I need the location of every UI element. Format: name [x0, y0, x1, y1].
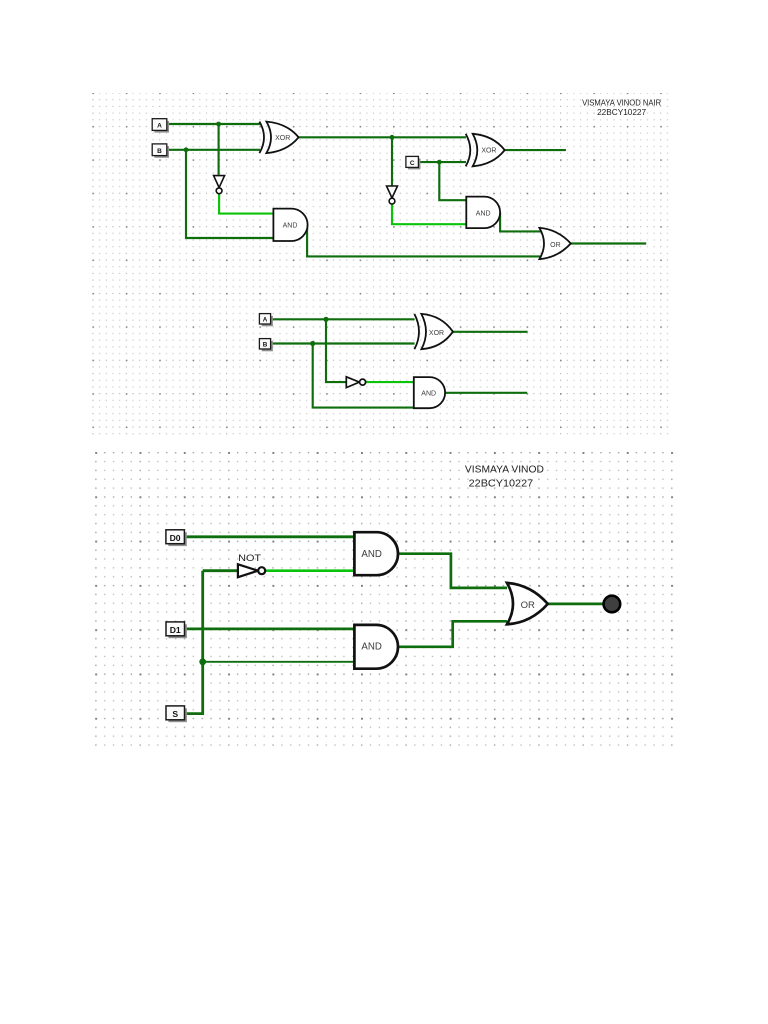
not gate (NOT2, pointing down) [387, 186, 398, 204]
wire B drop to AND3 [313, 344, 414, 408]
or gate (OR2) [507, 583, 548, 624]
wire AND1m output to OR2 [398, 554, 507, 588]
wire carry output of OR1 [571, 242, 646, 244]
wire D1 to AND2m [185, 628, 355, 631]
svg-text:OR: OR [550, 242, 561, 249]
svg-text:B: B [263, 342, 268, 349]
svg-text:D1: D1 [170, 625, 181, 635]
and gate (AND1) [273, 209, 307, 241]
svg-text:S: S [172, 709, 178, 719]
node XOR1-out junction [390, 135, 395, 140]
wire drop to NOT2 [391, 137, 393, 186]
input pin A (half adder) [259, 314, 273, 327]
xor gate (XOR3) [414, 314, 453, 349]
input pin A [152, 119, 169, 133]
wire riser to NOT4 [203, 569, 238, 572]
wire B drop to AND1 [186, 150, 273, 238]
wire S branch to AND2m [203, 661, 355, 663]
wire B to XOR3 [271, 342, 415, 344]
input pin D1 [166, 622, 187, 638]
canvas grid area 2 (2:1 mux) [88, 451, 675, 751]
wire AND2 output to OR1 [500, 212, 540, 231]
node B junction [184, 147, 189, 152]
wire A drop to NOT1 [218, 124, 220, 175]
svg-text:22BCY10227: 22BCY10227 [469, 479, 534, 490]
or gate (OR1) [539, 228, 570, 259]
wire C to XOR2 [418, 161, 466, 163]
svg-text:A: A [263, 317, 268, 324]
wire sum output of XOR2 [505, 149, 566, 151]
wire XOR3 sum output [453, 331, 528, 333]
wire D0 to AND1m [184, 535, 354, 538]
svg-text:D0: D0 [170, 533, 181, 543]
node C junction [437, 160, 442, 165]
output pin (LED dot) [604, 596, 621, 613]
svg-text:NOT: NOT [238, 553, 262, 563]
node A junction [216, 122, 221, 127]
xor gate U1 (XOR1) [259, 122, 298, 154]
svg-text:VISMAYA VINOD: VISMAYA VINOD [465, 464, 544, 475]
svg-text:A: A [157, 123, 162, 130]
svg-text:AND: AND [361, 549, 381, 560]
svg-text:AND: AND [476, 210, 491, 217]
wire AND1 output to OR1 [307, 225, 540, 257]
and gate (AND2) [466, 197, 500, 229]
svg-text:AND: AND [421, 391, 436, 398]
wire NOT2 output (high) to AND2 [392, 204, 466, 224]
wire A to XOR3 [271, 318, 415, 320]
svg-text:22BCY10227: 22BCY10227 [597, 107, 646, 117]
wire NOT4 output (high) to AND1m [265, 569, 354, 572]
not gate (NOT3, pointing right) [346, 377, 365, 388]
and gate (AND3) [414, 377, 445, 408]
svg-text:OR: OR [521, 600, 535, 611]
node S junction [199, 658, 206, 665]
wire S to riser [185, 712, 205, 715]
svg-text:AND: AND [361, 642, 381, 653]
wire C drop to AND2 [439, 162, 466, 200]
not gate (NOT4, pointing right) with NOT label [238, 553, 265, 577]
wire NOT1 output (high) to AND1 [219, 194, 273, 214]
wire OR2 output to pin [548, 603, 604, 606]
node A junction (half adder) [323, 317, 328, 322]
wire AND2m output to OR2 [398, 621, 507, 647]
input pin C [406, 156, 421, 169]
wire NOT3 output (high) to AND3 [366, 381, 414, 383]
wire S riser [201, 571, 204, 714]
and gate (AND2m) [354, 625, 398, 669]
input pin B (half adder) [259, 339, 273, 352]
svg-text:AND: AND [283, 222, 298, 229]
input pin S [166, 706, 187, 722]
input pin B [152, 144, 169, 158]
canvas grid area 1 (full adder + half adder) [91, 93, 673, 438]
node B junction (half adder) [310, 341, 315, 346]
and gate (AND1m) [354, 532, 398, 575]
wire A drop to NOT3 [326, 319, 346, 382]
svg-text:XOR: XOR [429, 330, 444, 337]
wire B to XOR1 [167, 149, 260, 151]
svg-text:B: B [157, 148, 162, 155]
svg-text:XOR: XOR [481, 148, 496, 155]
wire AND3 carry output [445, 392, 527, 394]
svg-text:C: C [410, 160, 415, 167]
svg-text:XOR: XOR [275, 135, 290, 142]
input pin D0 [166, 530, 187, 546]
wire XOR1 output to XOR2 [299, 136, 466, 138]
not gate (NOT1, pointing down) [214, 176, 225, 194]
xor gate (XOR2) [466, 134, 505, 167]
wire A to XOR1 [167, 123, 260, 125]
